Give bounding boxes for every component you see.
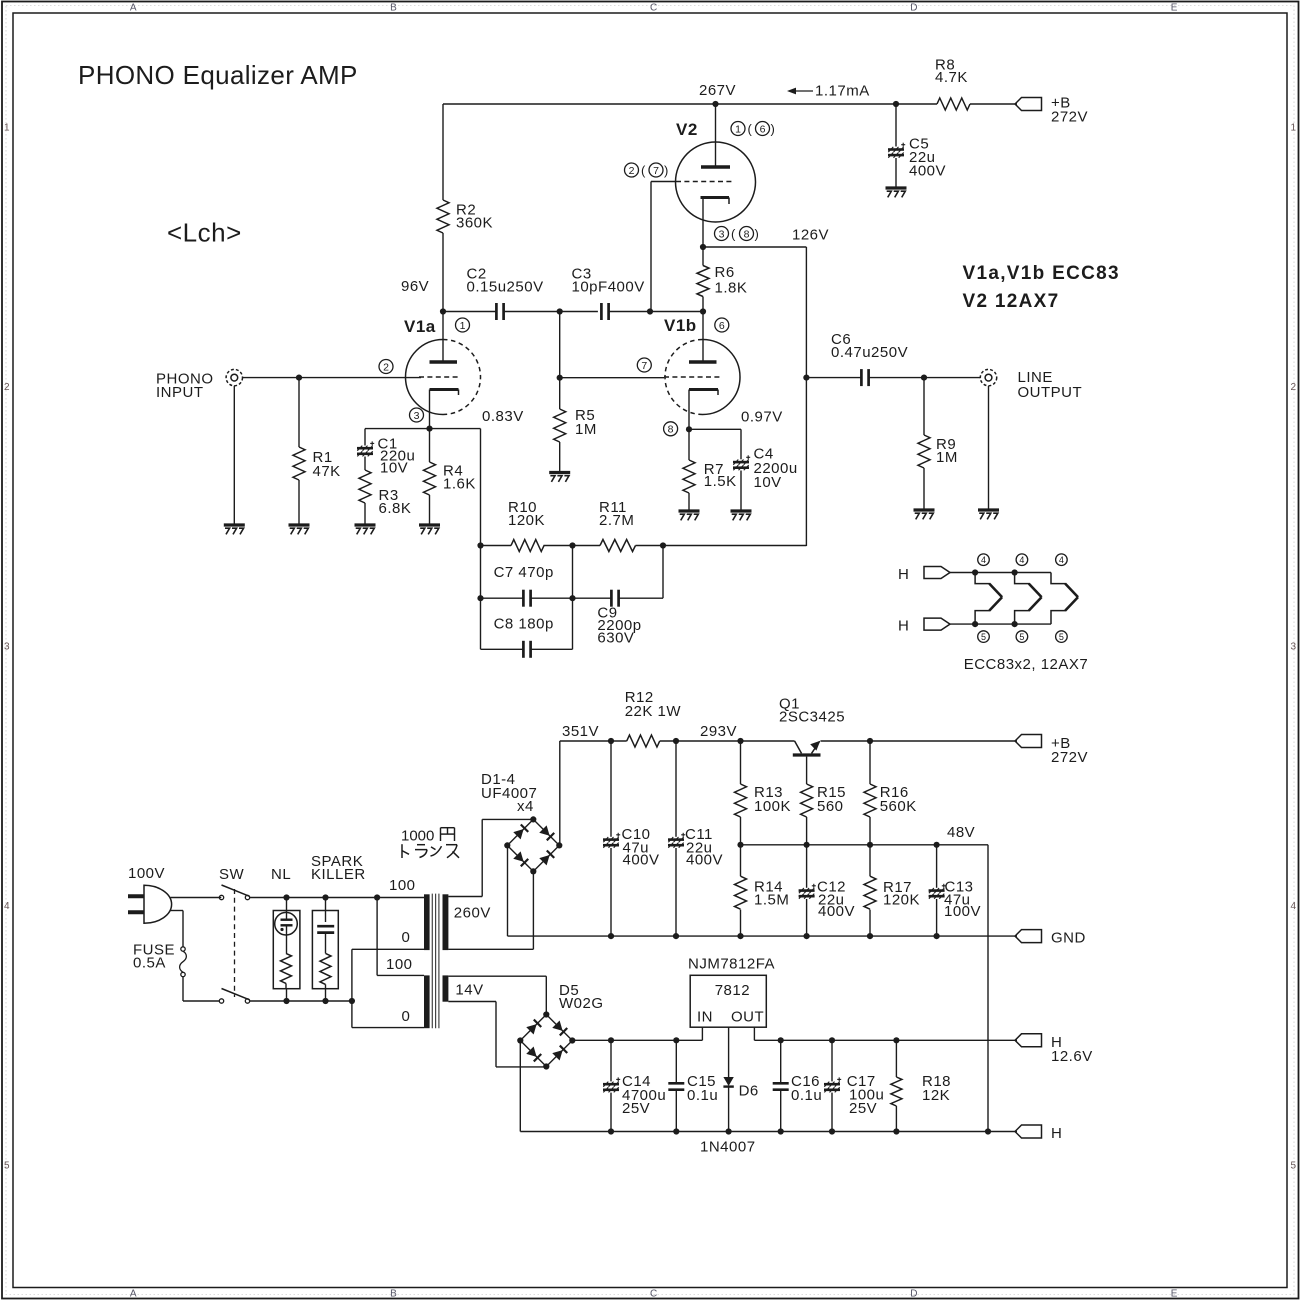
svg-text:(: (: [748, 122, 753, 137]
svg-text:1.5M: 1.5M: [754, 892, 789, 909]
svg-text:25V: 25V: [849, 1100, 877, 1117]
svg-text:47K: 47K: [313, 463, 341, 480]
svg-text:0.1u: 0.1u: [687, 1087, 718, 1104]
svg-text:1.17mA: 1.17mA: [815, 83, 870, 100]
svg-text:7: 7: [653, 165, 659, 177]
svg-text:0.15u250V: 0.15u250V: [467, 279, 544, 296]
svg-text:10pF400V: 10pF400V: [572, 279, 645, 296]
svg-text:1.5K: 1.5K: [704, 473, 737, 490]
svg-text:48V: 48V: [947, 824, 975, 841]
svg-text:B: B: [390, 1289, 397, 1300]
svg-text:GND: GND: [1051, 930, 1086, 947]
svg-text:7: 7: [641, 360, 647, 372]
svg-text:4: 4: [1059, 555, 1064, 565]
svg-text:400V: 400V: [623, 852, 660, 869]
svg-text:E: E: [1171, 1289, 1178, 1300]
svg-text:C: C: [650, 2, 658, 13]
svg-text:4: 4: [1290, 901, 1296, 912]
svg-text:H: H: [898, 566, 909, 583]
svg-text:2.7M: 2.7M: [599, 512, 634, 529]
svg-text:0: 0: [402, 929, 411, 946]
svg-text:6.8K: 6.8K: [379, 500, 412, 517]
svg-text:(: (: [731, 227, 736, 242]
svg-text:): ): [771, 122, 776, 137]
svg-text:R6: R6: [715, 264, 735, 281]
svg-text:272V: 272V: [1051, 109, 1088, 126]
svg-text:2: 2: [383, 361, 389, 373]
svg-text:1: 1: [4, 123, 10, 134]
svg-text:D: D: [910, 2, 918, 13]
svg-text:V1b: V1b: [664, 316, 697, 335]
svg-text:12.6V: 12.6V: [1051, 1048, 1093, 1065]
svg-text:(: (: [641, 163, 646, 178]
svg-text:x4: x4: [517, 798, 534, 815]
svg-text:4: 4: [1019, 555, 1024, 565]
svg-text:100K: 100K: [754, 798, 791, 815]
svg-text:400V: 400V: [818, 903, 855, 920]
svg-text:120K: 120K: [508, 512, 545, 529]
svg-text:W02G: W02G: [559, 995, 604, 1012]
svg-text:4: 4: [4, 901, 10, 912]
svg-text:6: 6: [719, 320, 725, 332]
svg-text:560: 560: [817, 798, 844, 815]
svg-text:3: 3: [414, 410, 420, 422]
svg-text:NL: NL: [271, 866, 291, 883]
svg-text:C7 470p: C7 470p: [494, 564, 554, 581]
svg-text:KILLER: KILLER: [311, 866, 366, 883]
svg-text:6: 6: [760, 123, 766, 135]
svg-text:100V: 100V: [944, 903, 981, 920]
svg-text:1.8K: 1.8K: [715, 280, 748, 297]
svg-text:INPUT: INPUT: [156, 384, 204, 401]
svg-text:8: 8: [668, 424, 674, 436]
svg-text:D6: D6: [739, 1083, 759, 1100]
svg-text:2: 2: [4, 382, 10, 393]
svg-text:1M: 1M: [936, 449, 958, 466]
svg-text:14V: 14V: [455, 982, 483, 999]
svg-text:H: H: [898, 618, 909, 635]
svg-text:5: 5: [1019, 632, 1024, 642]
svg-text:0: 0: [402, 1008, 411, 1025]
svg-text:C: C: [650, 1289, 658, 1300]
svg-text:OUTPUT: OUTPUT: [1018, 384, 1083, 401]
svg-text:0.97V: 0.97V: [741, 409, 783, 426]
svg-text:SW: SW: [219, 866, 245, 883]
svg-text:1M: 1M: [575, 421, 597, 438]
svg-text:100: 100: [389, 877, 416, 894]
svg-text:25V: 25V: [622, 1100, 650, 1117]
svg-text:3: 3: [4, 642, 10, 653]
svg-text:V1a: V1a: [404, 317, 436, 336]
svg-text:4: 4: [981, 555, 986, 565]
svg-text:OUT: OUT: [731, 1009, 764, 1026]
svg-text:5: 5: [1059, 632, 1064, 642]
svg-text:ECC83x2, 12AX7: ECC83x2, 12AX7: [964, 656, 1089, 673]
svg-text:0.83V: 0.83V: [482, 408, 524, 425]
svg-text:100: 100: [386, 956, 413, 973]
svg-text:): ): [664, 163, 669, 178]
svg-text:1: 1: [460, 320, 466, 332]
svg-text:3: 3: [1290, 642, 1296, 653]
svg-text:1000: 1000: [401, 828, 434, 845]
svg-text:351V: 351V: [562, 723, 599, 740]
svg-text:96V: 96V: [401, 278, 429, 295]
svg-text:360K: 360K: [456, 215, 493, 232]
svg-text:V1a,V1b ECC83: V1a,V1b ECC83: [963, 263, 1120, 284]
svg-text:0.1u: 0.1u: [791, 1087, 822, 1104]
svg-text:100V: 100V: [128, 865, 165, 882]
svg-text:IN: IN: [697, 1009, 713, 1026]
svg-text:260V: 260V: [454, 905, 491, 922]
svg-text:D: D: [910, 1289, 918, 1300]
svg-text:3: 3: [719, 228, 725, 240]
svg-text:4.7K: 4.7K: [935, 69, 968, 86]
svg-text:1.6K: 1.6K: [443, 476, 476, 493]
svg-text:2: 2: [629, 165, 635, 177]
svg-text:A: A: [130, 1289, 137, 1300]
svg-text:22K 1W: 22K 1W: [625, 703, 682, 720]
svg-text:2SC3425: 2SC3425: [779, 709, 845, 726]
svg-text:630V: 630V: [597, 630, 634, 647]
svg-text:PHONO Equalizer AMP: PHONO Equalizer AMP: [78, 60, 358, 90]
svg-text:B: B: [390, 2, 397, 13]
svg-text:560K: 560K: [880, 798, 917, 815]
svg-text:400V: 400V: [909, 163, 946, 180]
svg-text:5: 5: [981, 632, 986, 642]
svg-text:1: 1: [735, 123, 741, 135]
svg-text:1: 1: [1290, 123, 1296, 134]
svg-text:5: 5: [1290, 1161, 1296, 1172]
svg-text:A: A: [130, 2, 137, 13]
svg-text:1N4007: 1N4007: [700, 1139, 756, 1156]
svg-text:H: H: [1051, 1125, 1062, 1142]
svg-text:): ): [755, 227, 760, 242]
svg-text:<Lch>: <Lch>: [167, 218, 242, 248]
svg-text:C8 180p: C8 180p: [494, 616, 554, 633]
svg-text:0.47u250V: 0.47u250V: [831, 344, 908, 361]
svg-text:7812: 7812: [715, 982, 750, 999]
svg-text:120K: 120K: [883, 892, 920, 909]
svg-text:126V: 126V: [792, 227, 829, 244]
svg-text:E: E: [1171, 2, 1178, 13]
svg-text:2: 2: [1290, 382, 1296, 393]
svg-text:0.5A: 0.5A: [133, 955, 166, 972]
svg-text:V2: V2: [676, 120, 698, 139]
svg-text:400V: 400V: [686, 852, 723, 869]
svg-text:V2 12AX7: V2 12AX7: [963, 291, 1060, 312]
svg-text:8: 8: [744, 228, 750, 240]
svg-text:10V: 10V: [380, 460, 408, 477]
svg-text:272V: 272V: [1051, 749, 1088, 766]
svg-text:5: 5: [4, 1161, 10, 1172]
svg-text:12K: 12K: [922, 1087, 950, 1104]
svg-text:10V: 10V: [754, 474, 782, 491]
svg-text:293V: 293V: [700, 723, 737, 740]
svg-text:267V: 267V: [699, 82, 736, 99]
svg-text:NJM7812FA: NJM7812FA: [688, 956, 775, 973]
